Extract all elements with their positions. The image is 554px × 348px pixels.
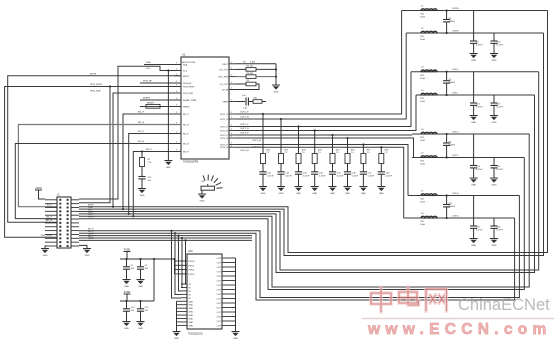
- ground below C15: [138, 188, 146, 190]
- svg-text:2: 2: [231, 143, 232, 145]
- wire OUT4_P U1 to filter block4 top: [236, 145, 408, 196]
- svg-text:OUT1_N: OUT1_N: [220, 119, 229, 121]
- resistor R3 on RESET line: [140, 106, 181, 108]
- svg-text:OUT3_N: OUT3_N: [220, 138, 229, 140]
- inductor L7 10uH: [421, 194, 437, 196]
- wire OUT3_N U1 to filter block3 bottom: [236, 138, 414, 158]
- svg-text:VALID: VALID: [88, 237, 94, 240]
- svg-text:PDN_SPKR: PDN_SPKR: [183, 87, 195, 89]
- connector J1 pin leads: [45, 200, 79, 246]
- transistor-array U2 TAS5111 power stage IC body: [187, 254, 222, 329]
- ground DGND right of U1: [272, 84, 280, 86]
- ground under C2: [470, 53, 478, 55]
- svg-text:OUT2_P: OUT2_P: [220, 127, 229, 129]
- svg-text:0.47uF: 0.47uF: [285, 175, 292, 177]
- svg-text:GND: GND: [492, 60, 497, 62]
- svg-text:TDK: TDK: [420, 221, 425, 223]
- node snubber tap 4: [314, 129, 316, 131]
- svg-text:MUTE: MUTE: [90, 74, 97, 76]
- capacitor C7 1uF: [125, 258, 127, 260]
- wire U2 input 4 from lane: [174, 232, 176, 234]
- inductor L6 10uH: [421, 156, 437, 158]
- wire PVDD rail link vertical: [153, 258, 155, 260]
- ferrite bead FB1: [253, 100, 262, 104]
- svg-text:GND: GND: [274, 92, 279, 94]
- wire PDN_HP stub: [140, 82, 181, 84]
- wire wrap route channel 6: [79, 158, 524, 290]
- wire filter block1 OUT- rail: [406, 32, 543, 34]
- U2 PVDD pins: [175, 261, 188, 274]
- svg-text:IN1_P: IN1_P: [138, 112, 145, 114]
- svg-text:CP_IN: CP_IN: [222, 90, 229, 92]
- svg-text:www.ECCN.com: www.ECCN.com: [367, 321, 552, 338]
- wire U2 input lane 4: [79, 237, 252, 239]
- svg-text:TDK: TDK: [420, 161, 425, 163]
- svg-text:IN1_P: IN1_P: [183, 114, 189, 116]
- svg-text:GND: GND: [233, 338, 238, 340]
- svg-text:GND: GND: [361, 193, 366, 195]
- svg-text:GND: GND: [43, 255, 48, 257]
- svg-text:BLANK_PWM: BLANK_PWM: [183, 99, 196, 102]
- wire IN1_P from J1: [123, 114, 181, 209]
- svg-text:GND: GND: [471, 122, 476, 124]
- capacitor C12 1uF: [139, 300, 141, 302]
- svg-text:OUTL+: OUTL+: [452, 69, 460, 71]
- capacitor C9 1uF: [139, 258, 141, 260]
- svg-text:GND: GND: [166, 167, 171, 169]
- svg-text:TDK: TDK: [420, 36, 425, 38]
- ground under C20: [490, 53, 498, 55]
- svg-text:GND: GND: [471, 245, 476, 247]
- resistor R26 7.5 snubber: [345, 154, 350, 164]
- svg-text:2: 2: [231, 129, 232, 131]
- capacitor C34 0.47uF snubber: [311, 171, 318, 173]
- capacitor C20 0.47uF to ground: [493, 33, 495, 41]
- capacitor C16 1uF on VREF pin: [236, 101, 245, 103]
- ground under C22: [490, 115, 498, 117]
- svg-text:TDK: TDK: [420, 75, 425, 77]
- potentiometer R6 with adjustment rays: [203, 175, 222, 189]
- svg-text:OUT: OUT: [217, 281, 222, 283]
- wire filter block3 OUT- rail: [412, 157, 524, 159]
- svg-text:0.47uF: 0.47uF: [337, 175, 344, 177]
- node snubber tap 1: [262, 113, 264, 115]
- svg-text:0.47uF: 0.47uF: [497, 169, 504, 171]
- svg-text:OUT: OUT: [217, 317, 222, 319]
- node snubber tap 7: [362, 143, 364, 145]
- svg-text:0.68uF: 0.68uF: [449, 82, 456, 84]
- capacitor C10 1uF: [125, 300, 127, 302]
- resistor R2 on PLL_FLT pin: [236, 68, 246, 70]
- wire IN1_N long gray from left edge: [18, 125, 181, 207]
- wire PDN_SUB from J1: [113, 93, 181, 207]
- svg-text:GND: GND: [138, 286, 143, 288]
- U1 pin leads left: [174, 64, 181, 66]
- capacitor C3 0.68uF across outputs: [446, 9, 448, 11]
- svg-text:OUT: OUT: [217, 321, 222, 323]
- svg-text:OUTC-: OUTC-: [452, 155, 459, 157]
- ground under C12: [137, 321, 145, 323]
- svg-text:GND: GND: [492, 185, 497, 187]
- capacitor C26 0.47uF to ground: [493, 218, 495, 226]
- svg-text:OUT: OUT: [217, 312, 222, 314]
- svg-text:GND: GND: [189, 312, 194, 314]
- svg-text:SDA: SDA: [183, 64, 188, 67]
- svg-text:OUT: OUT: [217, 303, 222, 305]
- svg-text:OUT: OUT: [217, 263, 222, 265]
- svg-text:IN1_N: IN1_N: [138, 122, 145, 124]
- svg-text:OUT: OUT: [217, 272, 222, 274]
- inductor L5 10uH: [421, 132, 437, 134]
- svg-text:OUT: OUT: [217, 258, 222, 260]
- svg-text:GND: GND: [312, 193, 317, 195]
- node snubber tap 5: [331, 134, 333, 136]
- capacitor C38 0.47uF snubber: [378, 171, 385, 173]
- svg-text:IN2_P: IN2_P: [138, 131, 145, 133]
- wire OUT1_N U1 to filter block1 bottom: [236, 33, 406, 119]
- svg-text:PDN_SPKR: PDN_SPKR: [90, 84, 102, 86]
- svg-text:10uH: 10uH: [420, 224, 425, 226]
- svg-text:GND: GND: [189, 305, 194, 307]
- svg-text:CP_OUT: CP_OUT: [220, 84, 229, 86]
- svg-text:OUTC+: OUTC+: [452, 132, 460, 134]
- svg-text:GND: GND: [296, 193, 301, 195]
- svg-text:RESET: RESET: [183, 107, 191, 109]
- ground snubber 7: [359, 186, 367, 188]
- svg-text:GND: GND: [124, 286, 129, 288]
- ground snubber 2: [277, 186, 285, 188]
- wire OUT2_N U1 to filter block2 bottom: [236, 95, 416, 131]
- svg-text:2: 2: [231, 125, 232, 127]
- svg-text:PVDD: PVDD: [189, 261, 195, 263]
- resistor R7 on IN3 bias branch: [141, 150, 143, 152]
- svg-text:GND: GND: [85, 255, 90, 257]
- svg-text:GND: GND: [330, 193, 335, 195]
- svg-text:2: 2: [231, 117, 232, 119]
- inductor L1 10uH: [421, 9, 437, 11]
- capacitor C8 0.68uF across outputs: [446, 133, 448, 135]
- svg-text:OUTS-: OUTS-: [452, 216, 459, 218]
- capacitor C33 0.47uF snubber: [295, 171, 302, 173]
- svg-text:OUTL-: OUTL-: [452, 93, 459, 95]
- capacitor C37 0.47uF snubber: [360, 171, 367, 173]
- wire U2 input 3 from lane: [177, 235, 179, 237]
- svg-text:2: 2: [231, 133, 232, 135]
- ground U2 right: [232, 331, 240, 333]
- svg-text:0.68uF: 0.68uF: [449, 21, 456, 23]
- svg-text:OUT: OUT: [217, 285, 222, 287]
- svg-text:IN3_P: IN3_P: [183, 152, 189, 154]
- wire U2 input 2 from lane: [181, 237, 183, 239]
- svg-text:OUT4_N: OUT4_N: [220, 147, 229, 149]
- wire U2 input 5 from lane: [170, 230, 172, 232]
- resistor R22 7.5 snubber: [279, 154, 284, 164]
- capacitor C25 0.47uF to ground: [473, 196, 475, 227]
- svg-text:GND: GND: [189, 325, 194, 327]
- svg-text:SCL2: SCL2: [47, 205, 53, 207]
- node snubber tap 2: [280, 118, 282, 120]
- svg-text:0.68uF: 0.68uF: [449, 206, 456, 208]
- svg-text:PDN_SUB: PDN_SUB: [183, 93, 193, 95]
- svg-text:IN1_N: IN1_N: [46, 220, 52, 222]
- svg-text:2: 2: [231, 136, 232, 138]
- svg-text:OUT: OUT: [217, 294, 222, 296]
- resistor R5 charge-pump loop CP_OUT to CP_IN: [236, 83, 246, 85]
- watermark divider line: [362, 318, 554, 320]
- capacitor C22 0.47uF to ground: [493, 95, 495, 103]
- svg-text:GND: GND: [189, 315, 194, 317]
- node snubber tap 8: [380, 146, 382, 148]
- svg-text:U10: U10: [188, 250, 193, 253]
- op-amp U1 TAS5001 PWM processor IC body: [181, 57, 229, 159]
- svg-text:0.47uF: 0.47uF: [476, 45, 483, 47]
- connector J1 pins: [59, 199, 68, 247]
- svg-text:REXT: REXT: [222, 64, 228, 66]
- wire PDN_SPKR long from left edge: [5, 87, 181, 238]
- ground snubber 1: [259, 186, 267, 188]
- svg-text:10uH: 10uH: [420, 101, 425, 103]
- svg-text:IN2_N: IN2_N: [138, 141, 145, 143]
- svg-text:TDK: TDK: [420, 98, 425, 100]
- svg-text:2: 2: [231, 68, 232, 70]
- resistor R21 7.5 snubber: [261, 154, 266, 164]
- wire U2 left ground bus: [177, 301, 182, 325]
- svg-text:GND: GND: [492, 122, 497, 124]
- ground under C24: [490, 177, 498, 179]
- svg-text:PVDD: PVDD: [189, 274, 195, 276]
- svg-text:0.47uF: 0.47uF: [267, 175, 274, 177]
- wire AGND vertical under U1: [167, 71, 169, 161]
- U2 right pins: [222, 258, 236, 326]
- capacitor C32 0.47uF snubber: [277, 171, 284, 173]
- svg-text:OUT: OUT: [217, 267, 222, 269]
- wire wrap route channel 5: [79, 134, 529, 287]
- wire wrap route channel 3: [79, 72, 539, 270]
- wire BLANK stub: [140, 99, 181, 101]
- wire U2 input lane 5: [79, 239, 252, 241]
- wire wrap route channel 8: [79, 218, 515, 300]
- wire wrap route channel 4: [79, 95, 535, 273]
- svg-text:PDN_HP: PDN_HP: [143, 81, 152, 83]
- svg-text:OUTS+: OUTS+: [452, 193, 460, 195]
- svg-text:PDN_SUB: PDN_SUB: [90, 91, 101, 93]
- ground snubber 3: [295, 186, 303, 188]
- svg-text:2: 2: [231, 145, 232, 147]
- svg-text:OUTR-: OUTR-: [452, 31, 459, 33]
- ground snubber 4: [311, 186, 319, 188]
- capacitor C24 0.47uF to ground: [493, 158, 495, 166]
- capacitor C35 0.47uF snubber: [329, 171, 336, 173]
- svg-text:GND: GND: [189, 319, 194, 321]
- svg-text:U1: U1: [182, 53, 186, 57]
- svg-text:0.47uF: 0.47uF: [497, 107, 504, 109]
- wire OUT4_N U1 to filter block4 bottom: [236, 147, 404, 218]
- svg-text:TDK: TDK: [420, 199, 425, 201]
- svg-text:PDN_HP: PDN_HP: [183, 83, 192, 85]
- svg-text:IN1_P: IN1_P: [46, 217, 52, 219]
- svg-text:GND: GND: [189, 308, 194, 310]
- resistor R24 7.5 snubber: [312, 154, 317, 164]
- wire filter block3 OUT+ rail: [412, 133, 529, 135]
- wire MUTE long from left edge: [8, 76, 181, 223]
- ground under C26: [490, 238, 498, 240]
- svg-text:R4 332: R4 332: [247, 73, 255, 75]
- wire SCL from J1 via vertical with jog: [79, 66, 181, 199]
- ground left of J1: [44, 245, 46, 248]
- svg-text:GND: GND: [140, 195, 145, 197]
- svg-text:OUT3_P: OUT3_P: [220, 135, 229, 137]
- svg-text:BLANK: BLANK: [143, 97, 151, 100]
- svg-text:2: 2: [231, 75, 232, 77]
- wire filter block4 OUT- rail: [404, 217, 515, 219]
- svg-text:OUT2_N: OUT2_N: [240, 128, 249, 130]
- svg-text:PLL_FLT: PLL_FLT: [220, 69, 229, 71]
- svg-text:OUT3_P: OUT3_P: [240, 133, 249, 135]
- svg-text:VREF: VREF: [222, 102, 228, 104]
- wire wrap route channel 1: [79, 11, 548, 253]
- resistor R1 6.49k on REXT pin: [236, 63, 276, 65]
- svg-text:TAS5111DAD: TAS5111DAD: [188, 333, 203, 336]
- svg-text:2: 2: [231, 62, 232, 64]
- ground under C9: [137, 279, 145, 281]
- svg-text:OUT3: OUT3: [88, 217, 94, 219]
- inductor L3 10uH: [421, 70, 437, 72]
- capacitor C23 0.47uF to ground: [473, 134, 475, 166]
- svg-text:OUT3_N: OUT3_N: [252, 140, 261, 142]
- resistor R28 7.5 snubber: [379, 154, 384, 164]
- watermark logo zhong-dian-wang (drawn glyphs): [362, 287, 554, 338]
- svg-text:0.47uF: 0.47uF: [476, 230, 483, 232]
- wire wrap route channel 7: [79, 196, 519, 298]
- svg-text:SDA: SDA: [146, 61, 151, 64]
- U2 left lower pins: [181, 284, 187, 325]
- resistor R25 7.5 snubber: [330, 154, 335, 164]
- capacitor C21 0.47uF to ground: [473, 72, 475, 103]
- svg-text:GND: GND: [189, 322, 194, 324]
- U1 pin leads right: [229, 63, 236, 65]
- inductor L4 10uH: [421, 93, 437, 95]
- svg-text:0.47uF: 0.47uF: [368, 175, 375, 177]
- svg-text:0.47uF: 0.47uF: [476, 169, 483, 171]
- wire SDA to U1 pin1: [144, 64, 181, 66]
- svg-text:OUT4_P: OUT4_P: [220, 145, 229, 147]
- svg-text:10uH: 10uH: [420, 164, 425, 166]
- resistor R4 on OSC_RES pin: [236, 76, 246, 78]
- svg-text:OUT1_N: OUT1_N: [240, 117, 249, 119]
- resistor R27 7.5 snubber: [361, 154, 366, 164]
- wire OUT2_P U1 to filter block2 top: [236, 72, 411, 127]
- connector J1 dual-row header body: [57, 197, 71, 248]
- svg-text:OUT: OUT: [217, 308, 222, 310]
- svg-text:10uH: 10uH: [420, 78, 425, 80]
- wire wrap route channel 2: [79, 33, 544, 256]
- wire PVDD rail upper: [120, 258, 175, 260]
- capacitor C15 1uF: [141, 167, 143, 177]
- svg-text:TDK: TDK: [420, 14, 425, 16]
- svg-text:GND: GND: [471, 60, 476, 62]
- svg-text:OUT: OUT: [217, 326, 222, 328]
- ground under C10: [123, 321, 131, 323]
- svg-text:0.47uF: 0.47uF: [319, 175, 326, 177]
- svg-text:GND: GND: [279, 193, 284, 195]
- wire REXT net vertical to ground: [275, 64, 277, 85]
- svg-text:GND: GND: [492, 245, 497, 247]
- ground snubber 6: [344, 186, 352, 188]
- svg-text:GND: GND: [189, 301, 194, 303]
- ground AGND below U1: [164, 160, 172, 162]
- svg-text:AVDD: AVDD: [35, 187, 42, 190]
- wire filter block2 OUT+ rail: [411, 71, 539, 73]
- svg-text:GND: GND: [200, 201, 205, 203]
- svg-text:MUTE: MUTE: [183, 76, 190, 78]
- svg-text:IN2_P: IN2_P: [183, 134, 189, 136]
- wire filter block1 OUT+ rail: [402, 10, 548, 12]
- capacitor C11 0.68uF across outputs: [446, 194, 448, 196]
- inductor L2 10uH: [421, 31, 437, 33]
- capacitor C5 0.68uF across outputs: [446, 71, 448, 73]
- svg-text:10uH: 10uH: [420, 17, 425, 19]
- inductor L8 10uH: [421, 216, 437, 218]
- svg-text:OUT: OUT: [217, 276, 222, 278]
- svg-text:OUT1_P: OUT1_P: [220, 114, 229, 116]
- svg-text:0.68uF: 0.68uF: [449, 145, 456, 147]
- svg-text:PDN_SPKR: PDN_SPKR: [41, 235, 53, 237]
- svg-text:R2 332: R2 332: [247, 66, 255, 68]
- svg-text:0.47uF: 0.47uF: [303, 175, 310, 177]
- ground under C7: [123, 279, 131, 281]
- svg-text:IN3_P: IN3_P: [146, 149, 153, 151]
- wire U2 input 1 from lane: [184, 239, 186, 241]
- wire PVDD feed vertical to U2: [174, 259, 176, 274]
- svg-text:ChinaECNet: ChinaECNet: [458, 296, 550, 314]
- resistor R23 7.5 snubber: [296, 154, 301, 164]
- svg-text:PVDD: PVDD: [189, 270, 195, 272]
- svg-text:GND: GND: [345, 193, 350, 195]
- svg-text:GND: GND: [138, 328, 143, 330]
- svg-text:PVDD: PVDD: [189, 265, 195, 267]
- svg-text:TDK: TDK: [420, 137, 425, 139]
- svg-text:10uH: 10uH: [420, 140, 425, 142]
- wire filter block2 OUT- rail: [416, 94, 535, 96]
- svg-text:IN1_N: IN1_N: [183, 125, 189, 127]
- node snubber tap 3: [297, 125, 299, 127]
- wire IN2_P from J1: [129, 134, 181, 214]
- svg-text:0.47uF: 0.47uF: [497, 230, 504, 232]
- svg-text:GND: GND: [471, 185, 476, 187]
- ground snubber 5: [329, 186, 337, 188]
- svg-text:0.47uF: 0.47uF: [352, 175, 359, 177]
- wire filter block4 OUT+ rail: [408, 195, 519, 197]
- ground under C23: [470, 177, 478, 179]
- svg-text:OUT2_N: OUT2_N: [220, 131, 229, 133]
- svg-text:2: 2: [231, 82, 232, 84]
- wire IN3_P from J1: [133, 152, 181, 217]
- svg-text:OUTR+: OUTR+: [452, 8, 460, 10]
- capacitor C36 0.47uF snubber: [344, 171, 351, 173]
- svg-text:10uH: 10uH: [420, 39, 425, 41]
- wire vertical J1 to PDN_SPKR net: [79, 87, 110, 203]
- ground below potentiometer: [201, 190, 203, 194]
- svg-text:0.47uF: 0.47uF: [497, 45, 504, 47]
- svg-text:OUT: OUT: [217, 290, 222, 292]
- svg-text:RESET: RESET: [147, 103, 155, 105]
- svg-text:OUT: OUT: [217, 299, 222, 301]
- svg-text:GND: GND: [261, 193, 266, 195]
- svg-text:TAS5001PFB: TAS5001PFB: [183, 161, 198, 164]
- svg-text:GND: GND: [124, 328, 129, 330]
- svg-text:OSC_RES: OSC_RES: [218, 77, 229, 79]
- capacitor C31 0.47uF snubber: [259, 171, 266, 173]
